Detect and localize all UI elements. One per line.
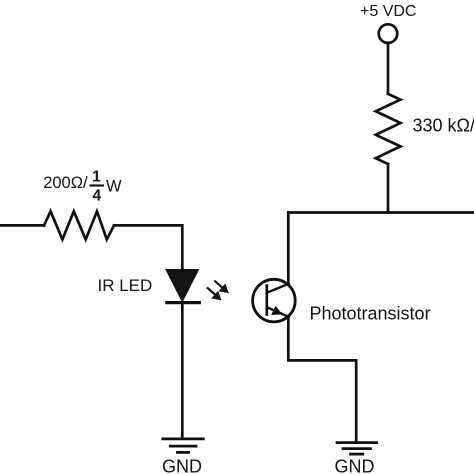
- resistor R2 330k: [376, 94, 401, 164]
- phototransistor Q1 emitter arrowhead: [271, 306, 282, 315]
- svg-text:+5 VDC: +5 VDC: [360, 3, 416, 20]
- svg-text:GND: GND: [162, 457, 202, 474]
- svg-text:330 kΩ/: 330 kΩ/: [413, 116, 474, 136]
- wire collector node horizontal: [288, 211, 474, 214]
- svg-text:GND: GND: [335, 457, 375, 474]
- wire emitter to ground: [288, 317, 356, 442]
- wire node to phototransistor collector: [287, 213, 290, 285]
- svg-text:IR LED: IR LED: [98, 276, 153, 295]
- wire LED cathode to ground: [181, 303, 184, 438]
- phototransistor Q1 base bar: [265, 286, 268, 315]
- wire R2 to collector node: [387, 164, 390, 213]
- wire left input to R1: [0, 224, 44, 227]
- phototransistor Q1 emitter lead: [267, 307, 289, 317]
- phototransistor Q1 collector lead: [267, 284, 289, 293]
- svg-text:4: 4: [92, 187, 101, 204]
- svg-text:1: 1: [92, 168, 101, 185]
- resistor R1 200 ohm: [44, 211, 114, 239]
- LED D1 triangle: [167, 270, 197, 300]
- phototransistor Q1 body circle: [253, 279, 296, 322]
- ground symbol left: [163, 439, 204, 453]
- svg-text:W: W: [106, 178, 122, 196]
- svg-text:200Ω/: 200Ω/: [43, 174, 88, 192]
- value label 200 Ohm quarter W: [43, 168, 122, 204]
- LED D1 cathode bar: [167, 301, 200, 304]
- LED emission arrow lower: [208, 288, 222, 300]
- svg-text:Phototransistor: Phototransistor: [310, 303, 431, 323]
- wire terminal to R2: [387, 44, 390, 94]
- ground symbol right: [337, 443, 377, 455]
- wire R1 to LED anode corner: [114, 225, 182, 270]
- node +5V supply terminal: [379, 24, 398, 43]
- LED emission arrow upper: [215, 281, 229, 293]
